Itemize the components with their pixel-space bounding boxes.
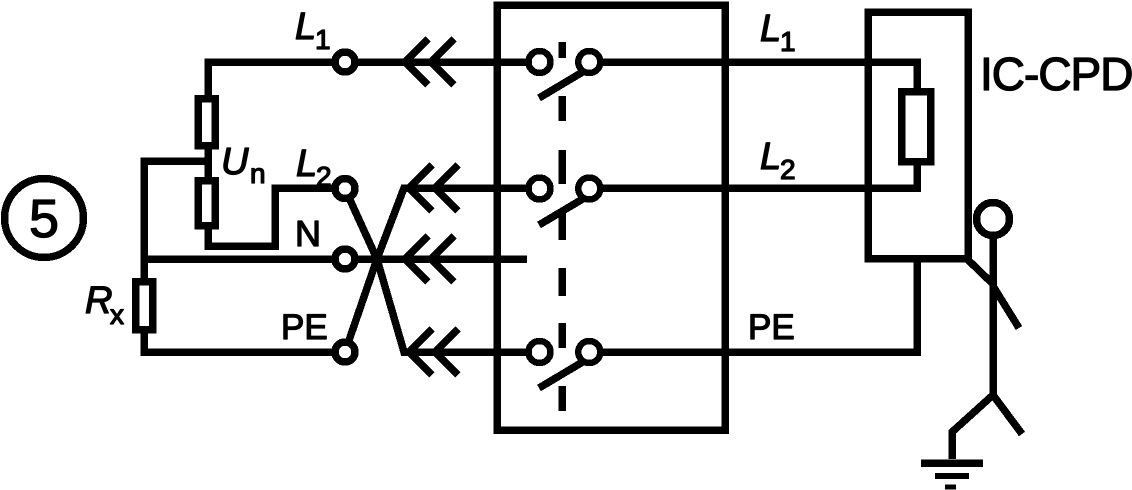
wire N row <box>144 255 527 263</box>
svg-text:PE: PE <box>281 308 328 347</box>
wire tap from divider to left rail <box>144 161 208 282</box>
switch S2 contact circles <box>529 178 551 200</box>
svg-text:2: 2 <box>316 161 332 192</box>
wire diagonal PE terminal to star <box>345 259 377 352</box>
svg-text:L: L <box>760 136 781 178</box>
wire L1 row from divider to switch <box>208 62 526 99</box>
wire PE from switch up to IC-CPD enclosure <box>602 258 917 352</box>
svg-text:L: L <box>760 8 781 50</box>
svg-text:x: x <box>110 299 124 330</box>
svg-text:N: N <box>295 213 321 254</box>
switch S3 lever PE <box>539 360 586 388</box>
person left leg to ground <box>952 395 993 459</box>
svg-text:5: 5 <box>29 189 59 249</box>
wire between divider resistors <box>204 143 212 182</box>
svg-text:L: L <box>296 143 317 185</box>
chevron arrows L1 row <box>405 39 454 85</box>
svg-text:R: R <box>85 280 112 322</box>
chevron arrows N row <box>405 236 454 282</box>
wire diagonal L2 terminal to star <box>345 189 377 259</box>
person right arm <box>993 286 1019 328</box>
resistor inside IC-CPD <box>902 92 931 162</box>
switch S2 lever L2 <box>539 197 586 225</box>
svg-text:L: L <box>295 6 316 48</box>
person head <box>977 203 1010 236</box>
terminal PE <box>335 342 355 362</box>
terminal L1 <box>335 52 355 72</box>
svg-text:1: 1 <box>780 26 796 57</box>
wire L1 from switch to IC-CPD resistor <box>602 62 917 95</box>
svg-text:1: 1 <box>315 24 331 55</box>
switch S1 contact circles <box>529 51 551 73</box>
person left arm touching enclosure <box>966 258 993 284</box>
chevron arrows PE row <box>409 329 458 375</box>
svg-text:PE: PE <box>748 308 795 347</box>
resistor R1 upper of divider <box>198 99 215 146</box>
wire below Rx to PE row <box>144 326 346 352</box>
ground symbol bar 1 <box>921 459 983 467</box>
wire from star to L2 row of switch box <box>377 188 526 259</box>
ground symbol bar 3 <box>945 485 956 490</box>
terminal L2 <box>335 179 355 199</box>
switch box outline <box>497 5 725 430</box>
chevron arrows L2 row <box>409 165 458 211</box>
wire L2 route from R2 bottom to terminal <box>208 188 346 246</box>
resistor Rx <box>136 282 153 330</box>
switch S1 lever L1 <box>539 70 586 98</box>
person right leg <box>993 395 1022 434</box>
svg-text:U: U <box>221 141 249 183</box>
svg-text:n: n <box>250 158 266 189</box>
IC-CPD box outline <box>868 12 968 259</box>
switch S3 contact circles <box>529 341 551 363</box>
wire L2 from IC-CPD resistor back to switch <box>602 158 917 188</box>
svg-text:2: 2 <box>780 154 796 185</box>
terminal N <box>335 249 355 269</box>
svg-text:IC-CPD: IC-CPD <box>980 48 1132 100</box>
resistor R2 lower of divider <box>198 181 215 226</box>
wire from star to PE row of switch box <box>377 259 526 352</box>
mechanical linkage dashed line <box>558 42 566 411</box>
ground symbol bar 2 <box>935 473 969 479</box>
circled number 5 <box>5 179 84 258</box>
person body <box>989 236 997 397</box>
